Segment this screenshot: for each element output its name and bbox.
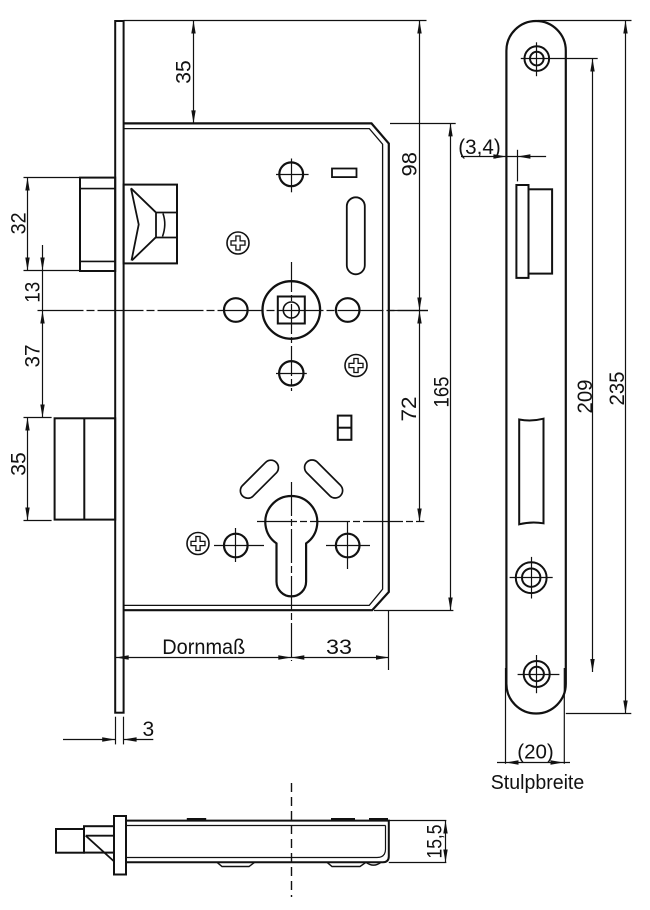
ext line deadbolt top: [24, 417, 52, 419]
faceplate outline (stadium): [506, 21, 565, 714]
spindle follower: big circle: [263, 281, 321, 339]
dim 165: [450, 123, 452, 610]
latch bevel vertical edge: [155, 212, 157, 237]
latch cutout lip strip: [516, 185, 528, 278]
latch bevel small arc: [163, 214, 165, 237]
latch bevel bottom diagonal: [132, 237, 156, 260]
latch cutout body: [529, 189, 553, 273]
svg-text:(20): (20): [517, 741, 554, 764]
svg-text:35: 35: [8, 452, 31, 476]
top hub hole: [279, 162, 303, 186]
ext line latch bottom: [24, 270, 80, 272]
texts side view: [458, 136, 629, 794]
phillips screw lower left: [187, 533, 209, 555]
svg-text:235: 235: [606, 372, 629, 406]
latch bolt inside case: [124, 185, 177, 264]
SIDE VIEW faceplate: [506, 21, 565, 714]
dim 35 deadbolt: [27, 418, 29, 521]
case inner bottom line: [126, 857, 377, 859]
svg-text:35: 35: [173, 60, 196, 84]
case outline top view: [126, 821, 389, 863]
middle hole crosshair: [510, 577, 553, 579]
lock case inner contour: [124, 129, 383, 606]
svg-text:72: 72: [398, 397, 421, 422]
top edge tab marks: [187, 818, 388, 820]
dim Dornmass / 33: [116, 657, 389, 659]
euro profile cylinder hole: [265, 496, 317, 596]
ext line latch top: [24, 177, 80, 179]
top hole crosshair: [521, 58, 598, 60]
svg-text:15,5: 15,5: [424, 825, 447, 859]
ext line case top right: [390, 123, 456, 125]
extension line: top of faceplate: [124, 20, 427, 22]
vertical slot: [347, 197, 365, 274]
spindle square: [278, 297, 305, 324]
latch bolt head (protruding, left of faceplate): [80, 178, 115, 271]
faceplate bar: [114, 816, 126, 875]
dim 235: [625, 21, 627, 714]
svg-text:33: 33: [326, 636, 352, 659]
spindle vertical centerline: [291, 262, 293, 391]
svg-text:98: 98: [398, 152, 421, 177]
svg-text:13: 13: [22, 282, 45, 303]
bottom boss bump 1: [217, 862, 255, 866]
dim 13: [42, 245, 44, 311]
DIMENSIONS front view: [24, 21, 456, 745]
ext line plate top: [538, 20, 632, 22]
top screw hole: [525, 46, 550, 71]
cylinder horizontal centerline: [257, 521, 424, 523]
ext line deadbolt bottom: [24, 520, 52, 522]
deadbolt (protruding, bottom left): [55, 418, 116, 519]
small rectangular hole top right: [332, 169, 357, 178]
dim 209: [592, 59, 594, 673]
dim (20): [505, 668, 507, 764]
faceplate (edge view, Stulp): [115, 21, 123, 713]
phillips screw upper: [227, 232, 249, 254]
lock case outer contour: [124, 123, 389, 610]
dashed centerline: [291, 783, 293, 897]
tilted slot right: [305, 460, 343, 498]
ext line case right bottom corner: [388, 611, 390, 671]
svg-text:32: 32: [8, 212, 31, 234]
svg-text:Dornmaß: Dornmaß: [162, 636, 245, 659]
svg-text:Stulpbreite: Stulpbreite: [491, 771, 585, 794]
ext line plate bottom: [566, 713, 632, 715]
svg-text:(3,4): (3,4): [458, 136, 500, 159]
dim 72: [419, 311, 421, 522]
dimension texts front view: [8, 60, 454, 741]
case inner right edge: [377, 826, 386, 858]
ext line case bottom right: [374, 610, 453, 612]
TOP VIEW: [56, 816, 389, 875]
latch head lip lines: [80, 188, 115, 190]
hole below spindle: [279, 361, 303, 385]
middle screw hole: [516, 562, 547, 593]
latch stem bottom line: [156, 237, 177, 239]
tilted slot left: [240, 460, 278, 498]
bottom boss bump 2: [327, 862, 366, 866]
deadbolt step line: [83, 418, 85, 519]
lower right fixing hole: [336, 534, 360, 558]
left handle screw hole: [224, 298, 248, 322]
latch stem top line: [156, 212, 177, 214]
dim 37: [42, 311, 44, 418]
bottom screw hole: [524, 661, 550, 687]
right handle screw hole: [336, 298, 360, 322]
latch body: [84, 826, 114, 852]
dim 32 latch: [27, 178, 29, 271]
stacked square holes: [338, 416, 352, 440]
svg-text:3: 3: [142, 718, 154, 741]
dim 3 faceplate thickness: [115, 717, 117, 745]
spindle inner circle: [283, 302, 299, 318]
bottom boss arc: [366, 862, 381, 865]
spindle horizontal centerline: [38, 310, 429, 312]
svg-text:37: 37: [22, 345, 45, 368]
svg-text:165: 165: [431, 377, 454, 408]
dim (3,4) leader: [461, 156, 546, 158]
latch tip: [56, 829, 84, 853]
case inner top line: [126, 825, 386, 827]
lower left fixing hole: [224, 534, 248, 558]
latch bevel chevron: [131, 188, 139, 260]
ext line spindle row right: [389, 310, 428, 312]
dim 98: [419, 21, 421, 311]
latch bevel top diagonal: [131, 188, 156, 212]
dim 15,5: [389, 820, 447, 822]
dim 35 top: [193, 21, 195, 124]
latch bevel line top view: [86, 835, 114, 837]
deadbolt cutout: [519, 419, 543, 525]
latch bevel diagonal top view: [86, 836, 114, 861]
bottom hole crosshair: [518, 674, 560, 676]
phillips screw right: [345, 355, 367, 377]
svg-text:209: 209: [574, 380, 597, 414]
cylinder vertical centerline: [291, 482, 293, 661]
